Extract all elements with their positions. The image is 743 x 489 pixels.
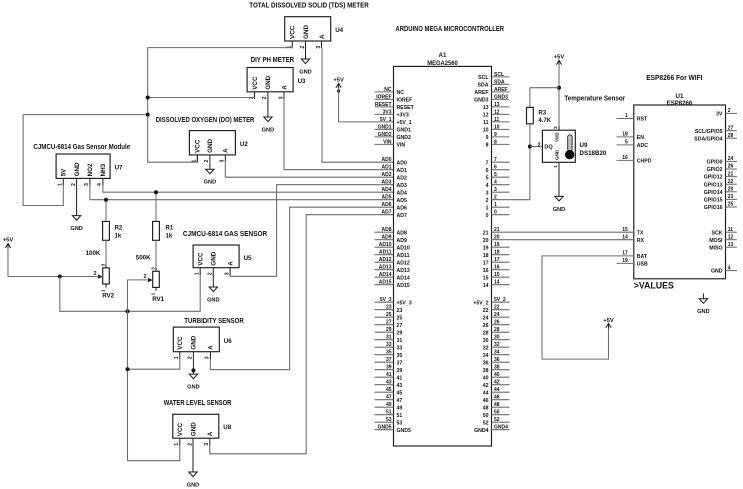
svg-text:MOSI: MOSI (709, 238, 723, 244)
svg-text:GPIO13: GPIO13 (704, 182, 723, 188)
svg-text:GND: GND (555, 149, 560, 160)
svg-text:AD5: AD5 (381, 195, 391, 201)
wire +5V branch down to U5 VCC (60, 275, 200, 311)
wire +5V left to RV2 wiper (8, 249, 99, 277)
svg-text:VIN: VIN (383, 139, 392, 145)
label ESP8266 title (646, 75, 702, 82)
svg-text:39: 39 (397, 368, 403, 374)
svg-text:24: 24 (494, 312, 500, 318)
svg-text:VCC: VCC (252, 76, 259, 90)
node rail-U3 junction (146, 96, 150, 100)
svg-text:VCC: VCC (290, 25, 297, 39)
svg-text:SDA/GPIO4: SDA/GPIO4 (694, 136, 722, 142)
microcontroller A1 MEGA2560 (375, 52, 510, 446)
svg-text:17: 17 (494, 257, 500, 263)
svg-text:13: 13 (728, 242, 734, 248)
node R1 top junction (154, 190, 158, 194)
svg-text:38: 38 (494, 365, 500, 371)
svg-text:GND: GND (211, 251, 218, 265)
svg-text:41: 41 (386, 372, 392, 378)
svg-text:GND1: GND1 (378, 124, 392, 130)
svg-text:15: 15 (483, 275, 489, 281)
svg-text:AREF: AREF (494, 87, 508, 93)
label CJMCU-6814 sensor title (183, 231, 267, 238)
svg-text:DISSOLVED OXYGEN (DO) METER: DISSOLVED OXYGEN (DO) METER (156, 117, 255, 124)
node +5V branch junction (58, 275, 62, 279)
svg-text:RESET: RESET (375, 102, 392, 108)
wire U5 A to Arduino AD3 (230, 185, 393, 277)
svg-text:12: 12 (494, 109, 500, 115)
potentiometer RV1 500K (136, 254, 165, 302)
node +5V Arduino junction (337, 89, 340, 92)
svg-text:8: 8 (486, 143, 489, 149)
wire U6 A to Arduino AD6 (210, 207, 393, 370)
svg-text:4: 4 (494, 180, 497, 186)
label Arduino title (396, 26, 505, 33)
svg-text:44: 44 (483, 390, 489, 396)
svg-text:29: 29 (397, 330, 403, 336)
svg-text:3: 3 (316, 46, 322, 49)
svg-text:37: 37 (386, 357, 392, 363)
svg-text:AREF: AREF (474, 90, 488, 96)
label temperature sensor title (564, 95, 625, 102)
svg-text:GND: GND (303, 25, 310, 39)
svg-text:AD6: AD6 (397, 205, 407, 211)
svg-text:2: 2 (208, 272, 214, 275)
svg-text:12: 12 (728, 234, 734, 240)
ground U6 pin2 (187, 359, 199, 391)
svg-text:3: 3 (204, 443, 210, 446)
svg-text:TX: TX (637, 230, 644, 236)
svg-text:3: 3 (494, 187, 497, 193)
svg-text:30: 30 (483, 338, 489, 344)
svg-text:42: 42 (483, 383, 489, 389)
svg-text:GND: GND (207, 138, 214, 152)
svg-text:44: 44 (494, 387, 500, 393)
label CJMCU-6814 module title (33, 144, 130, 151)
svg-text:GND1: GND1 (397, 128, 412, 134)
svg-text:GND3: GND3 (474, 98, 489, 104)
wire U2 A to Arduino AD2 (225, 163, 393, 178)
svg-text:AD0: AD0 (381, 157, 391, 163)
svg-text:49: 49 (397, 405, 403, 411)
svg-text:51: 51 (386, 410, 392, 416)
svg-text:49: 49 (386, 402, 392, 408)
svg-text:4: 4 (728, 265, 731, 271)
wire DQ to U9 (530, 146, 543, 148)
svg-text:GND5: GND5 (378, 425, 392, 431)
svg-text:46: 46 (494, 395, 500, 401)
svg-text:GND: GND (190, 422, 197, 436)
label turbidity title (184, 318, 243, 325)
svg-text:2: 2 (486, 198, 489, 204)
svg-text:SDA: SDA (494, 79, 505, 85)
svg-text:25: 25 (728, 202, 734, 208)
svg-text:40: 40 (494, 372, 500, 378)
svg-text:20: 20 (728, 187, 734, 193)
connector U4 TDS meter (285, 17, 344, 49)
svg-text:22: 22 (494, 305, 500, 311)
svg-text:AD9: AD9 (381, 235, 391, 241)
svg-text:RST: RST (637, 117, 648, 123)
svg-text:13: 13 (494, 102, 500, 108)
svg-text:AD3: AD3 (397, 183, 407, 189)
svg-text:43: 43 (397, 383, 403, 389)
svg-text:U7: U7 (115, 165, 123, 172)
svg-text:3: 3 (278, 96, 284, 99)
svg-text:SCL/GPIO5: SCL/GPIO5 (695, 129, 723, 135)
svg-text:41: 41 (397, 375, 403, 381)
svg-text:4: 4 (97, 183, 103, 186)
ground U9 (553, 167, 565, 213)
svg-text:A1: A1 (439, 52, 447, 59)
svg-text:1: 1 (553, 165, 558, 168)
svg-text:AD15: AD15 (397, 283, 410, 289)
svg-text:AD13: AD13 (379, 265, 392, 271)
svg-text:R2: R2 (115, 225, 123, 231)
svg-text:19: 19 (483, 245, 489, 251)
svg-text:26: 26 (728, 164, 734, 170)
svg-text:18: 18 (483, 253, 489, 259)
svg-text:VIN: VIN (397, 143, 406, 149)
svg-text:GND: GND (553, 207, 565, 213)
svg-text:16: 16 (483, 268, 489, 274)
svg-text:A: A (227, 261, 234, 266)
svg-text:29: 29 (386, 327, 392, 333)
svg-text:ESP8266 For WIFI: ESP8266 For WIFI (646, 75, 702, 82)
node U6 VCC junction (126, 367, 130, 371)
svg-text:9: 9 (494, 132, 497, 138)
svg-text:10: 10 (483, 128, 489, 134)
wire R2 to RV2 (105, 240, 107, 264)
svg-text:27: 27 (386, 320, 392, 326)
svg-text:GND: GND (711, 269, 723, 275)
svg-text:GND4: GND4 (494, 425, 508, 431)
svg-text:ADC: ADC (637, 143, 648, 149)
svg-text:AD1: AD1 (381, 165, 391, 171)
svg-text:36: 36 (483, 360, 489, 366)
svg-text:3: 3 (84, 183, 90, 186)
svg-text:SCK: SCK (712, 230, 723, 236)
svg-text:TURBIDITY SENSOR: TURBIDITY SENSOR (184, 318, 243, 325)
svg-text:50: 50 (483, 413, 489, 419)
svg-text:AD3: AD3 (381, 180, 391, 186)
svg-text:GPIO15: GPIO15 (704, 198, 723, 204)
svg-text:AD12: AD12 (379, 257, 392, 263)
svg-text:SCL: SCL (478, 75, 489, 81)
svg-text:17: 17 (483, 260, 489, 266)
svg-text:35: 35 (397, 353, 403, 359)
svg-text:GND: GND (187, 483, 199, 489)
svg-text:GND: GND (207, 298, 219, 304)
svg-text:1: 1 (195, 272, 201, 275)
wire +5V to U9 VDD (558, 65, 560, 130)
svg-text:7: 7 (486, 160, 489, 166)
svg-text:DIY PH METER: DIY PH METER (251, 57, 294, 64)
svg-text:+5V_3: +5V_3 (397, 300, 412, 306)
svg-text:NC: NC (384, 87, 392, 93)
svg-text:2: 2 (728, 108, 731, 114)
svg-text:SDA: SDA (478, 83, 489, 89)
svg-text:EN: EN (637, 135, 644, 141)
svg-text:6: 6 (486, 168, 489, 174)
wire U7 5V to +5V rail (23, 115, 148, 206)
svg-text:37: 37 (397, 360, 403, 366)
svg-text:2: 2 (144, 274, 147, 280)
svg-text:18: 18 (494, 250, 500, 256)
svg-text:RX: RX (637, 238, 645, 244)
svg-text:3: 3 (220, 160, 226, 163)
wire U7 NH3 to Arduino AD4 (103, 186, 394, 193)
svg-text:GND: GND (204, 180, 216, 186)
connector U6 turbidity sensor (173, 327, 232, 359)
svg-text:19: 19 (622, 258, 628, 264)
svg-text:11: 11 (494, 117, 500, 123)
connector U3 DIY PH meter (247, 68, 306, 100)
svg-text:5: 5 (494, 172, 497, 178)
svg-text:1: 1 (625, 113, 628, 119)
svg-text:43: 43 (386, 380, 392, 386)
svg-text:24: 24 (728, 156, 734, 162)
svg-text:5V: 5V (61, 168, 68, 177)
wire U7 NO2 to Arduino AD5 (90, 186, 394, 200)
svg-text:3: 3 (101, 263, 106, 266)
ground U7 pin2 (70, 186, 82, 232)
wire RV1 wiper to VCC vertical (128, 280, 149, 461)
svg-text:AD14: AD14 (397, 275, 410, 281)
svg-text:A: A (281, 85, 288, 90)
wire Arduino 21 to ESP TX (492, 231, 634, 233)
svg-text:AD10: AD10 (379, 242, 392, 248)
svg-text:R3: R3 (538, 110, 546, 116)
svg-text:+3V3: +3V3 (397, 113, 409, 119)
svg-text:8: 8 (494, 139, 497, 145)
svg-text:ARDUINO MEGA MICROCONTROLLER: ARDUINO MEGA MICROCONTROLLER (396, 26, 505, 33)
svg-text:GPIO2: GPIO2 (707, 167, 723, 173)
svg-text:1: 1 (192, 160, 198, 163)
svg-text:SCL: SCL (494, 72, 504, 78)
svg-text:AD7: AD7 (397, 213, 407, 219)
svg-text:100K: 100K (86, 250, 101, 257)
ground U4 pin2 (299, 48, 311, 76)
svg-text:53: 53 (386, 417, 392, 423)
svg-text:33: 33 (397, 345, 403, 351)
power +5V Arduino (333, 78, 344, 89)
svg-text:52: 52 (483, 420, 489, 426)
svg-text:DQ: DQ (544, 145, 553, 151)
node VCC vertical junction (126, 309, 130, 313)
svg-text:14: 14 (483, 283, 489, 289)
svg-text:AD14: AD14 (379, 272, 392, 278)
power +5V ESP BAT (603, 318, 614, 329)
svg-text:GND2: GND2 (378, 132, 392, 138)
svg-text:23: 23 (397, 308, 403, 314)
svg-text:48: 48 (483, 405, 489, 411)
svg-text:AD12: AD12 (397, 260, 410, 266)
module U1 ESP8266 (617, 93, 737, 279)
svg-text:+5V_2: +5V_2 (473, 300, 488, 306)
wire R3 top branch (530, 88, 559, 108)
svg-text:10: 10 (494, 124, 500, 130)
svg-text:4.7K: 4.7K (538, 118, 551, 124)
ground U3 pin2 (262, 99, 274, 134)
label DIY PH meter title (251, 57, 294, 64)
svg-text:3: 3 (553, 126, 558, 129)
label VALUES net (634, 281, 674, 291)
svg-text:AD15: AD15 (379, 280, 392, 286)
wire R1 to RV1 (155, 240, 157, 267)
svg-text:3V: 3V (716, 112, 723, 118)
svg-text:20: 20 (483, 238, 489, 244)
wire +5V to Arduino 5V_1 (339, 88, 394, 122)
svg-text:34: 34 (494, 350, 500, 356)
svg-text:IOREF: IOREF (376, 94, 391, 100)
ground U2 pin2 (204, 163, 216, 186)
ground U8 pin2 (187, 446, 199, 489)
svg-text:WATER LEVEL SENSOR: WATER LEVEL SENSOR (164, 400, 232, 407)
power +5V temperature (554, 54, 565, 65)
svg-text:50: 50 (494, 410, 500, 416)
svg-text:23: 23 (728, 194, 734, 200)
svg-text:U3: U3 (298, 78, 306, 85)
svg-text:23: 23 (386, 305, 392, 311)
svg-text:28: 28 (483, 330, 489, 336)
svg-text:GPIO14: GPIO14 (704, 190, 723, 196)
svg-text:GND: GND (74, 162, 81, 176)
svg-text:1: 1 (58, 183, 64, 186)
svg-text:IOREF: IOREF (397, 98, 413, 104)
connector U2 DO meter (189, 131, 248, 163)
svg-text:34: 34 (483, 353, 489, 359)
svg-text:1: 1 (486, 205, 489, 211)
wire U8 A to Arduino AD7 (210, 215, 394, 454)
svg-text:AD13: AD13 (397, 268, 410, 274)
svg-text:AD5: AD5 (397, 198, 407, 204)
svg-text:33: 33 (386, 342, 392, 348)
svg-text:VCC: VCC (177, 422, 184, 436)
svg-text:39: 39 (386, 365, 392, 371)
svg-text:AD6: AD6 (381, 202, 391, 208)
svg-text:U2: U2 (240, 141, 248, 148)
svg-text:NH3: NH3 (100, 163, 107, 176)
svg-text:3: 3 (486, 190, 489, 196)
label water level title (164, 400, 232, 407)
svg-text:28: 28 (728, 133, 734, 139)
svg-text:U5: U5 (244, 255, 252, 262)
svg-text:46: 46 (483, 398, 489, 404)
svg-text:CJMCU-6814 Gas Sensor Module: CJMCU-6814 Gas Sensor Module (33, 144, 130, 151)
svg-text:MISO: MISO (709, 245, 722, 251)
svg-text:5V_3: 5V_3 (380, 297, 392, 303)
svg-text:AD4: AD4 (397, 190, 407, 196)
svg-text:28: 28 (494, 327, 500, 333)
svg-text:32: 32 (494, 342, 500, 348)
svg-text:38: 38 (483, 368, 489, 374)
svg-text:3: 3 (151, 267, 156, 270)
label DO meter title (156, 117, 255, 124)
svg-text:26: 26 (483, 323, 489, 329)
svg-text:AD8: AD8 (381, 227, 391, 233)
svg-text:30: 30 (494, 335, 500, 341)
wire U4 VCC to +5V rail / rail to U2 VCC (148, 48, 293, 163)
svg-text:21: 21 (483, 230, 489, 236)
svg-text:GND3: GND3 (494, 94, 508, 100)
svg-text:9: 9 (486, 135, 489, 141)
svg-text:AD10: AD10 (397, 245, 410, 251)
svg-text:4: 4 (486, 183, 489, 189)
svg-text:A: A (207, 431, 214, 436)
svg-text:GND: GND (265, 75, 272, 89)
svg-text:GPIO16: GPIO16 (704, 205, 723, 211)
svg-text:GND: GND (262, 128, 274, 134)
svg-text:GND: GND (70, 226, 82, 232)
svg-text:0: 0 (494, 210, 497, 216)
wire U3 A to Arduino AD1 (284, 99, 394, 170)
svg-text:AD0: AD0 (397, 160, 407, 166)
svg-text:CHPD: CHPD (637, 159, 652, 165)
svg-text:VCC: VCC (198, 252, 205, 266)
svg-text:21: 21 (728, 171, 734, 177)
svg-text:3V3: 3V3 (383, 109, 392, 115)
svg-text:BAT: BAT (637, 254, 648, 260)
potentiometer RV2 100K (86, 250, 115, 299)
svg-text:5: 5 (625, 140, 628, 146)
wire R3 bottom to Arduino pin 2 (492, 124, 530, 200)
svg-text:AD8: AD8 (397, 230, 407, 236)
svg-text:48: 48 (494, 402, 500, 408)
svg-text:31: 31 (386, 335, 392, 341)
svg-text:1: 1 (174, 443, 180, 446)
svg-text:GND: GND (191, 335, 198, 349)
svg-text:AD7: AD7 (381, 210, 391, 216)
svg-text:GND4: GND4 (474, 428, 489, 434)
svg-text:5V_2: 5V_2 (494, 297, 506, 303)
svg-text:2: 2 (94, 271, 97, 277)
svg-text:2: 2 (262, 96, 268, 99)
node R2 top junction (104, 198, 108, 202)
svg-text:AD11: AD11 (397, 253, 410, 259)
svg-text:7: 7 (494, 157, 497, 163)
svg-text:11: 11 (483, 120, 489, 126)
svg-text:25: 25 (386, 312, 392, 318)
wire VCC vertical to U8 VCC (128, 446, 180, 461)
svg-text:VCC: VCC (195, 139, 202, 153)
svg-text:35: 35 (386, 350, 392, 356)
svg-text:GND: GND (299, 70, 311, 76)
svg-text:27: 27 (728, 125, 734, 131)
svg-text:TOTAL DISSOLVED SOLID (TDS) ME: TOTAL DISSOLVED SOLID (TDS) METER (249, 3, 368, 10)
svg-text:U4: U4 (335, 27, 343, 34)
svg-text:0: 0 (486, 213, 489, 219)
ground U5 pin2 (207, 275, 219, 304)
svg-text:47: 47 (397, 398, 403, 404)
svg-text:3: 3 (205, 356, 211, 359)
svg-text:45: 45 (386, 387, 392, 393)
svg-text:19: 19 (494, 242, 500, 248)
temperature sensor U9 DS18B20 (538, 126, 607, 168)
svg-text:Temperature Sensor: Temperature Sensor (564, 95, 625, 102)
svg-text:1k: 1k (115, 233, 122, 239)
svg-text:53: 53 (397, 420, 403, 426)
svg-text:1: 1 (174, 356, 180, 359)
svg-text:2: 2 (71, 183, 77, 186)
svg-text:5V_1: 5V_1 (380, 117, 392, 123)
svg-text:42: 42 (494, 380, 500, 386)
svg-text:2: 2 (300, 46, 306, 49)
svg-text:ESP8266: ESP8266 (667, 100, 693, 107)
svg-text:VCC: VCC (177, 336, 184, 350)
svg-text:A: A (208, 345, 215, 350)
